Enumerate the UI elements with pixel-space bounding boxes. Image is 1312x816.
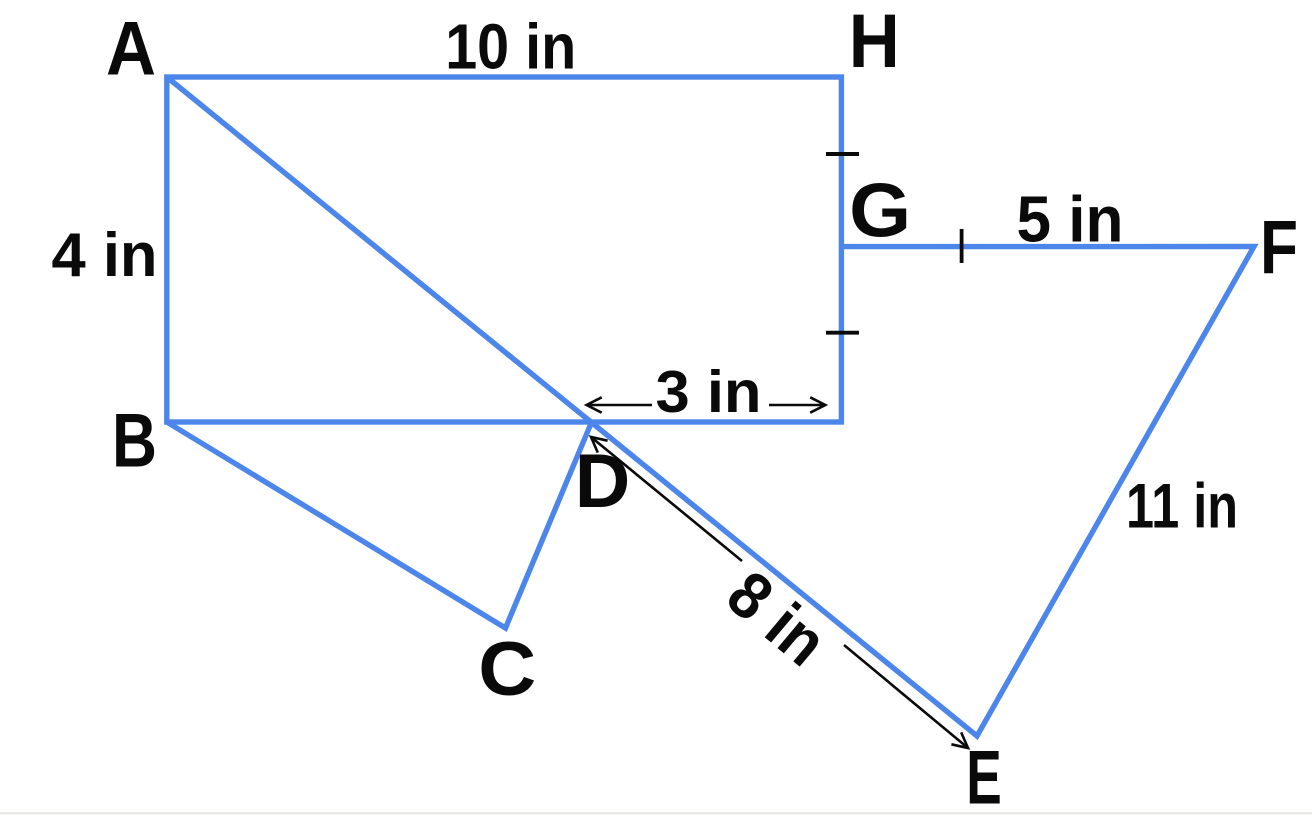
svg-text:5 in: 5 in [1017,184,1124,256]
svg-text:10 in: 10 in [445,11,576,83]
svg-text:11 in: 11 in [1126,472,1238,542]
tick mark on segment G-R [826,331,859,335]
svg-text:A: A [106,7,156,92]
svg-text:E: E [966,735,1002,816]
svg-text:H: H [849,0,900,84]
svg-text:F: F [1260,205,1298,290]
wire diagonal A through D to E, then E up to F, F left to G [167,77,1254,736]
svg-text:4 in: 4 in [52,220,158,290]
wire B to C to D [167,422,591,628]
dimension arrow pointing left (3 in) [587,397,652,412]
svg-text:B: B [112,399,157,484]
svg-text:D: D [575,439,631,524]
dimension arrow along DE lower segment with head at E [844,645,968,748]
dimension arrow along DE upper segment with head at D [591,437,742,561]
svg-text:G: G [849,169,911,254]
tick mark on segment H-G [826,152,859,156]
faint bottom edge line [0,812,1312,815]
svg-text:C: C [478,627,536,712]
tick mark on segment G-F [960,229,964,263]
svg-text:8 in: 8 in [714,556,841,680]
svg-text:3 in: 3 in [656,359,762,425]
dimension arrow pointing right (3 in) [769,397,825,412]
rectangle ABRH (sides AH top, H-R right, R-B bottom, B-A left) [167,77,842,422]
